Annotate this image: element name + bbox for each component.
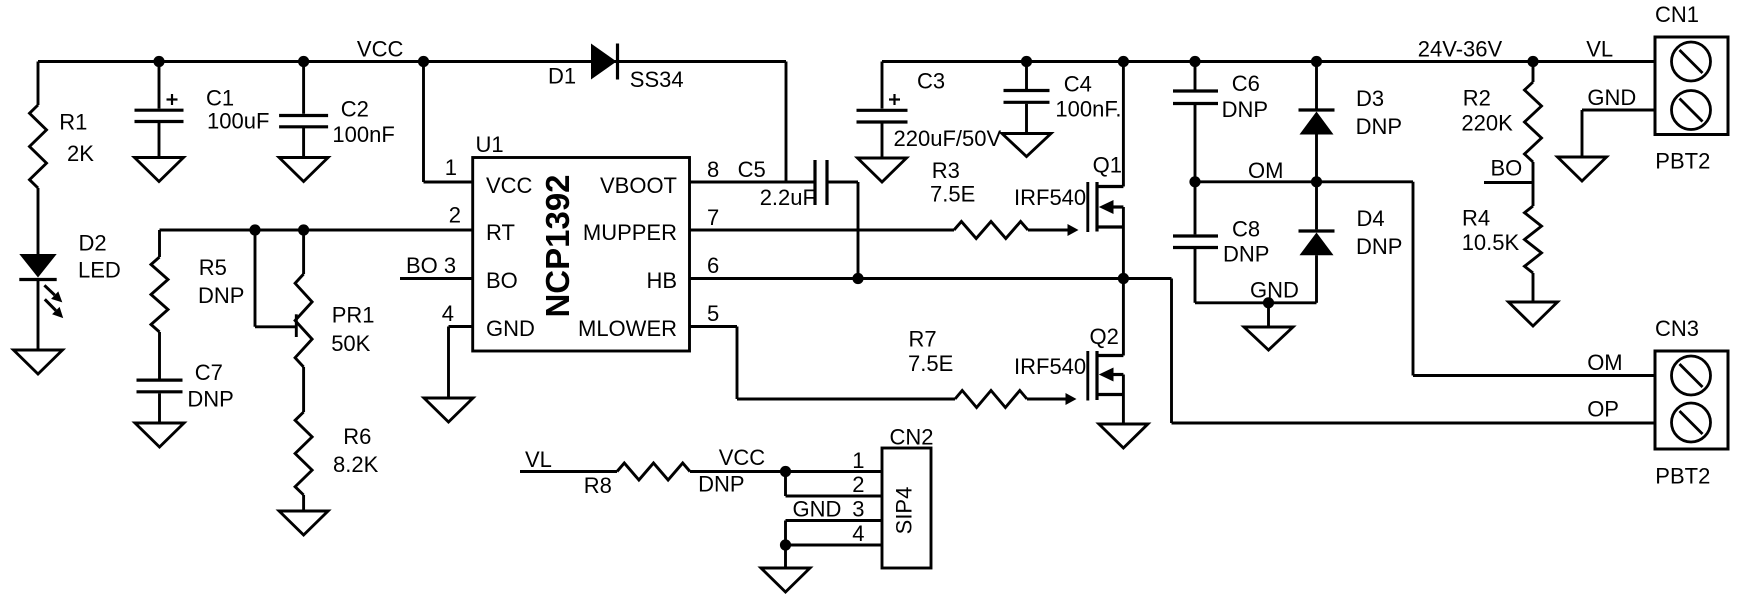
svg-text:DNP: DNP bbox=[1223, 242, 1269, 267]
svg-text:C1: C1 bbox=[206, 85, 234, 110]
capacitor C7 bbox=[137, 360, 234, 412]
svg-text:BO: BO bbox=[486, 268, 518, 293]
resistor R1 bbox=[30, 105, 95, 188]
wire RT drop to R5 bbox=[158, 230, 161, 257]
wire D2 to ground bbox=[37, 280, 40, 351]
CN3 screw 1 bbox=[1672, 356, 1711, 395]
svg-text:U1: U1 bbox=[476, 132, 504, 157]
svg-text:50K: 50K bbox=[331, 331, 370, 356]
svg-text:C6: C6 bbox=[1232, 71, 1260, 96]
svg-text:HB: HB bbox=[646, 268, 677, 293]
node junction GND bottom bbox=[1263, 297, 1274, 308]
wire OM to C8 bbox=[1194, 182, 1197, 235]
svg-text:220uF/50V: 220uF/50V bbox=[894, 126, 1002, 151]
svg-text:10.5K: 10.5K bbox=[1462, 230, 1520, 255]
svg-text:IRF540: IRF540 bbox=[1014, 185, 1086, 210]
wire R3 to Q1 gate bbox=[1028, 224, 1079, 236]
svg-text:PBT2: PBT2 bbox=[1655, 149, 1710, 174]
svg-text:Q2: Q2 bbox=[1090, 324, 1119, 349]
svg-text:24V-36V: 24V-36V bbox=[1418, 37, 1503, 62]
svg-text:MLOWER: MLOWER bbox=[578, 316, 677, 341]
wire VL stub bbox=[520, 470, 617, 473]
net label OM at CN3 bbox=[1587, 350, 1622, 375]
wire rail to C3 bbox=[881, 62, 884, 109]
CN2 pin numbers bbox=[852, 448, 864, 546]
svg-text:PR1: PR1 bbox=[332, 303, 375, 328]
wire VCC to pin1 bbox=[424, 62, 473, 183]
wire C1 to ground bbox=[158, 123, 161, 158]
ground under C7 bbox=[135, 423, 184, 447]
CN3 screw 2 bbox=[1672, 403, 1711, 442]
svg-text:7: 7 bbox=[707, 205, 719, 230]
svg-text:OM: OM bbox=[1587, 350, 1622, 375]
svg-text:220K: 220K bbox=[1461, 110, 1513, 135]
node junction D3/D4/OM bbox=[1311, 176, 1322, 187]
wire R7 to Q2 gate bbox=[1027, 393, 1077, 405]
svg-text:VCC: VCC bbox=[357, 37, 404, 62]
wire pin6 HB bbox=[690, 277, 1124, 280]
wire R4 to ground bbox=[1532, 273, 1535, 302]
node junction VCC/CN2 bbox=[780, 466, 791, 477]
wire C4 to ground bbox=[1025, 104, 1028, 134]
potentiometer PR1 bbox=[255, 230, 374, 367]
svg-text:NCP1392: NCP1392 bbox=[539, 174, 576, 317]
node junction wiper bbox=[249, 224, 260, 235]
wire D4 to bottom bbox=[1315, 255, 1318, 303]
node junction C2/rail bbox=[298, 56, 309, 67]
svg-text:GND: GND bbox=[486, 316, 535, 341]
svg-text:Q1: Q1 bbox=[1093, 153, 1122, 178]
net label GND at CN1 bbox=[1587, 85, 1636, 110]
CN1 screw 2 bbox=[1672, 91, 1711, 130]
wire to block ground bbox=[1267, 303, 1270, 327]
node junction PR1 top bbox=[298, 224, 309, 235]
resistor R6 bbox=[295, 412, 378, 495]
wire CN1 GND bbox=[1582, 110, 1655, 157]
svg-text:VCC: VCC bbox=[486, 173, 533, 198]
capacitor C6 bbox=[1173, 71, 1268, 122]
diode D1 SS34 bbox=[548, 44, 684, 92]
wire C7 to ground bbox=[158, 393, 161, 423]
svg-text:VL: VL bbox=[1586, 37, 1613, 62]
wire PR1 top bbox=[302, 230, 305, 274]
wire left drop to R1 bbox=[37, 62, 40, 106]
svg-text:4: 4 bbox=[442, 301, 454, 326]
svg-text:R2: R2 bbox=[1463, 85, 1491, 110]
wire CN2 to ground bbox=[784, 545, 787, 568]
wire CN2 pin2 bbox=[786, 472, 883, 497]
net label BO at R2 bbox=[1491, 156, 1523, 181]
wire C6 to OM bbox=[1194, 105, 1197, 182]
wire HB to OP bbox=[1123, 279, 1655, 424]
svg-text:GND: GND bbox=[1587, 85, 1636, 110]
svg-text:8: 8 bbox=[707, 157, 719, 182]
node junction C1/rail bbox=[153, 56, 164, 67]
wire C8 to bottom bbox=[1194, 249, 1197, 303]
wire R1 to D2 bbox=[37, 188, 40, 254]
net label OP bbox=[1587, 396, 1619, 421]
connector CN3 box bbox=[1655, 316, 1728, 488]
ground under R6 bbox=[279, 511, 328, 535]
wire OM to D4 bbox=[1315, 182, 1318, 230]
svg-text:DNP: DNP bbox=[1356, 234, 1402, 259]
diode D4 DNP bbox=[1299, 206, 1403, 259]
svg-text:BO: BO bbox=[1491, 156, 1523, 181]
wire C2 to ground bbox=[302, 128, 305, 158]
svg-text:100uF: 100uF bbox=[207, 108, 269, 133]
svg-text:CN1: CN1 bbox=[1655, 2, 1699, 27]
ground under C4 bbox=[1002, 134, 1051, 157]
svg-text:1: 1 bbox=[445, 155, 457, 180]
svg-text:7.5E: 7.5E bbox=[930, 182, 975, 207]
net label GND block bbox=[1250, 278, 1299, 303]
svg-text:C2: C2 bbox=[341, 96, 369, 121]
wire CN2 pin1 bbox=[786, 470, 883, 473]
wire CN2 pin3 bbox=[786, 521, 883, 546]
net label GND at CN2 bbox=[793, 497, 842, 522]
LED D2 bbox=[19, 231, 120, 318]
net label VL at CN1 bbox=[1586, 37, 1613, 62]
wire BO stub pin3 bbox=[400, 277, 473, 280]
svg-text:IRF540: IRF540 bbox=[1014, 354, 1086, 379]
connector CN1 box bbox=[1655, 2, 1728, 173]
ground under C2 bbox=[279, 158, 328, 182]
svg-text:DNP: DNP bbox=[1356, 114, 1402, 139]
U1 pin names bbox=[486, 173, 677, 341]
wire Q1 source to HB bbox=[1122, 207, 1125, 279]
svg-text:D4: D4 bbox=[1357, 206, 1385, 231]
svg-text:R8: R8 bbox=[584, 473, 612, 498]
svg-text:GND: GND bbox=[1250, 278, 1299, 303]
wire Q1 drain to rail bbox=[1122, 62, 1125, 187]
svg-text:100nF: 100nF bbox=[332, 122, 394, 147]
svg-text:5: 5 bbox=[707, 301, 719, 326]
svg-text:1: 1 bbox=[852, 448, 864, 473]
svg-text:C4: C4 bbox=[1064, 71, 1092, 96]
resistor R7 bbox=[908, 327, 1027, 408]
svg-text:2.2uF: 2.2uF bbox=[760, 185, 816, 210]
svg-text:CN3: CN3 bbox=[1655, 316, 1699, 341]
node junction C5/HB bbox=[852, 273, 863, 284]
resistor R5 bbox=[151, 255, 244, 332]
ground under CN1 GND bbox=[1558, 157, 1607, 181]
ground under C3 bbox=[858, 158, 907, 182]
svg-text:C7: C7 bbox=[195, 360, 223, 385]
svg-text:OP: OP bbox=[1587, 396, 1619, 421]
svg-text:OM: OM bbox=[1248, 158, 1283, 183]
svg-text:VCC: VCC bbox=[719, 445, 766, 470]
svg-text:R7: R7 bbox=[909, 327, 937, 352]
svg-text:LED: LED bbox=[78, 258, 121, 283]
svg-text:GND: GND bbox=[793, 497, 842, 522]
wire R2 to R4 bbox=[1532, 162, 1535, 206]
node junction D3/rail bbox=[1311, 56, 1322, 67]
wire R8 to VCC node bbox=[690, 470, 786, 473]
wire rail to C4 bbox=[1025, 62, 1028, 90]
svg-text:D2: D2 bbox=[79, 231, 107, 256]
connector CN2 box bbox=[882, 425, 934, 569]
svg-text:2: 2 bbox=[852, 472, 864, 497]
svg-text:R5: R5 bbox=[199, 255, 227, 280]
capacitor C5 bbox=[738, 157, 827, 210]
wire C5 to HB bbox=[827, 182, 858, 279]
svg-text:DNP: DNP bbox=[698, 472, 744, 497]
ground under C8/D4 bbox=[1244, 327, 1293, 350]
transistor Q2 IRF540 bbox=[1014, 324, 1123, 401]
wire OM to CN3 bbox=[1413, 182, 1655, 376]
svg-text:D3: D3 bbox=[1356, 86, 1384, 111]
capacitor C3 bbox=[857, 69, 1002, 152]
net label VL at R8 bbox=[525, 447, 552, 472]
svg-text:6: 6 bbox=[707, 253, 719, 278]
node junction C6/rail bbox=[1189, 56, 1200, 67]
wire OM row bbox=[1195, 180, 1413, 183]
resistor R8 DNP bbox=[584, 463, 745, 498]
wire Q2 source to ground bbox=[1122, 375, 1125, 425]
wire rail to D3 bbox=[1315, 62, 1318, 109]
svg-text:RT: RT bbox=[486, 220, 515, 245]
ground under R4 bbox=[1509, 302, 1558, 326]
svg-text:4: 4 bbox=[852, 521, 864, 546]
wire Q2 drain to HB bbox=[1122, 279, 1125, 356]
wire pin8 VBOOT bbox=[690, 62, 816, 183]
svg-text:R4: R4 bbox=[1462, 206, 1490, 231]
net label VCC bbox=[357, 37, 404, 62]
svg-text:C5: C5 bbox=[738, 157, 766, 182]
svg-text:7.5E: 7.5E bbox=[908, 351, 953, 376]
resistor R3 bbox=[930, 158, 1028, 239]
resistor R2 bbox=[1461, 82, 1541, 162]
wire VCC rail bbox=[38, 60, 786, 63]
wire 24V-36V rail bbox=[882, 60, 1655, 63]
svg-text:D1: D1 bbox=[548, 64, 576, 89]
svg-text:2K: 2K bbox=[67, 141, 94, 166]
node junction CN2 pin4 bbox=[780, 539, 791, 550]
svg-text:3: 3 bbox=[852, 497, 864, 522]
net label OM bbox=[1248, 158, 1283, 183]
wire D3 to OM bbox=[1315, 135, 1318, 182]
svg-text:100nF.: 100nF. bbox=[1055, 97, 1121, 122]
svg-text:DNP: DNP bbox=[198, 283, 244, 308]
wire CN2 pin4 bbox=[786, 544, 883, 547]
svg-text:BO 3: BO 3 bbox=[406, 253, 456, 278]
node junction VCC/pin1 drop bbox=[418, 56, 429, 67]
svg-text:C3: C3 bbox=[917, 69, 945, 94]
ground under Q2 bbox=[1099, 424, 1148, 448]
wire pin7 MUPPER bbox=[690, 229, 955, 232]
svg-text:PBT2: PBT2 bbox=[1655, 464, 1710, 489]
wire RT row bbox=[160, 229, 473, 232]
svg-text:DNP: DNP bbox=[187, 387, 233, 412]
wire PR1 to R6 bbox=[302, 367, 305, 412]
capacitor C8 bbox=[1173, 217, 1269, 267]
svg-text:VBOOT: VBOOT bbox=[600, 173, 677, 198]
wire C3 to ground bbox=[881, 124, 884, 159]
node junction C4/rail bbox=[1021, 56, 1032, 67]
wire pin5 MLOWER bbox=[690, 327, 956, 400]
transistor Q1 IRF540 bbox=[1014, 153, 1123, 232]
svg-text:DNP: DNP bbox=[1222, 97, 1268, 122]
U1 pin numbers bbox=[442, 155, 720, 326]
svg-text:VL: VL bbox=[525, 447, 552, 472]
wire pin4 to ground bbox=[449, 327, 473, 399]
wire C8/D4 bottom row bbox=[1195, 301, 1317, 304]
resistor R4 bbox=[1462, 206, 1542, 273]
node junction HB/Q2 drain bbox=[1118, 273, 1129, 284]
svg-text:R6: R6 bbox=[343, 424, 371, 449]
svg-text:R3: R3 bbox=[932, 158, 960, 183]
capacitor C1 bbox=[135, 85, 270, 133]
ground under C1 bbox=[135, 158, 184, 182]
svg-text:SS34: SS34 bbox=[630, 67, 684, 92]
node junction VL/R2 bbox=[1527, 56, 1538, 67]
svg-text:8.2K: 8.2K bbox=[333, 452, 379, 477]
svg-text:R1: R1 bbox=[59, 110, 87, 135]
svg-text:MUPPER: MUPPER bbox=[583, 220, 677, 245]
node junction Q1 drain/rail bbox=[1118, 56, 1129, 67]
net label BO 3 bbox=[406, 253, 456, 278]
wire rail to C6 bbox=[1194, 62, 1197, 90]
ground under U1 pin4 bbox=[424, 398, 473, 422]
svg-text:CN2: CN2 bbox=[890, 425, 934, 450]
wire R6 to ground bbox=[302, 495, 305, 511]
ground under D2 bbox=[14, 350, 63, 374]
svg-text:2: 2 bbox=[449, 203, 461, 228]
wire BO stub at R2 bbox=[1484, 181, 1533, 184]
node junction C6/C8/OM bbox=[1189, 176, 1200, 187]
svg-text:SIP4: SIP4 bbox=[892, 487, 917, 535]
net label VCC at CN2 bbox=[719, 445, 766, 470]
op-amp U1 NCP1392 box bbox=[473, 132, 690, 351]
diode D3 DNP bbox=[1299, 86, 1403, 139]
capacitor C2 bbox=[279, 96, 395, 147]
wire rail to C2 bbox=[302, 62, 305, 114]
ground under CN2 bbox=[761, 568, 810, 592]
wire rail to C1 bbox=[158, 62, 161, 109]
capacitor C4 bbox=[1004, 71, 1122, 121]
net label 24V-36V bbox=[1418, 37, 1503, 62]
wire rail to R2 bbox=[1532, 62, 1535, 83]
wire R5 to C7 bbox=[158, 332, 161, 379]
svg-text:C8: C8 bbox=[1232, 217, 1260, 242]
CN1 screw 1 bbox=[1672, 42, 1711, 81]
